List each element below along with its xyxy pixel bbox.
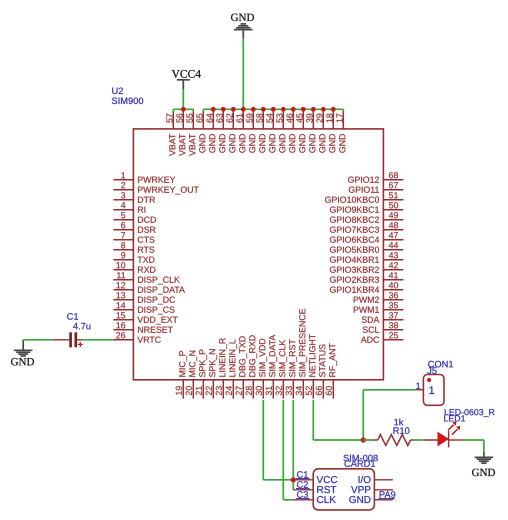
- wire CON1 to junction: [363, 389, 416, 391]
- U2 top pin 45 GND: [296, 109, 305, 152]
- wire pin 52 across to R10 junction: [313, 439, 363, 441]
- junction at top pin 54: [271, 107, 276, 112]
- U2 bottom pin 32 SIM_CLK: [276, 340, 287, 399]
- junction at top pin 58: [261, 107, 266, 112]
- U2 right pin 36 PWM2: [354, 292, 404, 303]
- CARD1 pad label C2: [296, 481, 310, 488]
- CARD1 pin name VPP: [351, 486, 370, 493]
- CON1 value label J5: [427, 367, 436, 373]
- C1 reference label: [67, 313, 78, 320]
- CARD1 pin name RST: [317, 486, 336, 493]
- U2 left pin 15 VDD_EXT: [113, 312, 177, 324]
- junction at top pin 63: [221, 107, 226, 112]
- U2 top pin 39 GND: [306, 109, 315, 152]
- junction at top pin 62: [231, 107, 236, 112]
- U2 left pin 26 VRTC: [113, 332, 160, 343]
- U2 right pin 51 GPIO10KBC0: [325, 192, 403, 203]
- power symbol VCC4: [172, 70, 201, 89]
- U2 right pin 47 GPIO6KBC4: [330, 232, 403, 243]
- U2 top pin 29 GND: [316, 109, 325, 152]
- LED1 package label LED-0603_R: [445, 409, 495, 417]
- wire top GND vertical to pin 61: [242, 39, 244, 110]
- U2 bottom pin 34 SIM_PRESENCE: [296, 309, 307, 399]
- wire down to GND symbol: [483, 440, 485, 452]
- wire pin 30 across to CARD1 VCC: [263, 479, 293, 481]
- U2 top pin 54 GND: [266, 109, 275, 152]
- wire junction drop to CARD1 RST: [292, 480, 294, 490]
- wire pin 52 NETLIGHT down: [312, 400, 314, 440]
- U2 bottom pin 21 SPK_P: [196, 349, 207, 398]
- U2 left pin 8 RTS: [113, 242, 154, 253]
- net label PA9: [378, 491, 395, 498]
- IC U2 SIM900 body: [133, 129, 383, 380]
- U2 right pin 38 SCL: [363, 322, 404, 333]
- ground symbol GND (left, near C1): [11, 340, 34, 366]
- U2 right pin 35 PWM1: [354, 302, 404, 313]
- U2 top pin 59 GND: [246, 109, 255, 152]
- U2 bottom pin 66 STATUS: [316, 344, 326, 398]
- U2 bottom pin 20 MIC_N: [186, 351, 197, 399]
- U2 bottom pin 19 MIC_P: [176, 351, 187, 399]
- U2 right pin 37 SDA: [362, 312, 404, 323]
- C1 value label 4.7u: [73, 323, 90, 329]
- U2 left pin 14 DISP_CS: [113, 302, 174, 314]
- U2 bottom pin 23 LINEIN_R: [216, 338, 227, 398]
- U2 left pin 1 PWRKEY: [113, 172, 175, 182]
- U2 bottom pin 27 DBG_TXD: [236, 336, 247, 398]
- U2 right pin 44 GPIO5KBR0: [330, 242, 403, 253]
- LED LED1 LED-0603_R: [423, 422, 463, 448]
- U2 top pin 46 GND: [286, 109, 295, 152]
- LED1 reference label: [444, 415, 465, 421]
- U2 top pin 63 GND: [216, 109, 225, 152]
- U2 left pin 2 PWRKEY_OUT: [113, 182, 198, 194]
- U2 top pin 57 VBAT: [166, 109, 175, 156]
- U2 bottom pin 28 DBG_RXD: [246, 335, 257, 398]
- U2 bottom pin 31 SIM_DATA: [266, 335, 277, 399]
- junction at top pin 18: [331, 107, 336, 112]
- wire VCC4 vertical to pin 56: [182, 89, 184, 109]
- resistor R10 1k: [374, 435, 414, 446]
- U2 bottom pin 60 RF_ANT: [326, 343, 337, 398]
- CARD1 pin name I/O: [359, 476, 371, 483]
- R10 reference label: [393, 427, 409, 434]
- U2 left pin 6 DSR: [113, 222, 155, 233]
- wire LED1 cathode to GND: [463, 439, 484, 441]
- U2 top pin 17 GND: [336, 109, 345, 152]
- CARD1 pad label C1: [296, 471, 310, 478]
- U2 top pin 55 VBAT: [186, 109, 195, 156]
- connector CON1 J5: [416, 375, 444, 406]
- CON1 pin number 1: [416, 383, 420, 389]
- U2 left pin 7 CTS: [113, 232, 154, 243]
- U2 left pin 4 RI: [113, 202, 145, 212]
- junction at top pin 45: [301, 107, 306, 112]
- wire GND rail across pins 65-17: [203, 108, 343, 110]
- wire left GND to C1: [23, 339, 52, 341]
- junction at top pin 46: [291, 107, 296, 112]
- U2 left pin 5 DCD: [113, 212, 156, 223]
- junction at R10 input: [361, 437, 366, 442]
- SIM card holder CARD1 SIM-008: [293, 469, 393, 510]
- U2 right pin 48 GPIO7KBC3: [330, 222, 403, 233]
- U2 right pin 67 GPIO11: [349, 182, 404, 193]
- R10 value label 1k: [394, 419, 403, 426]
- wire pin 33 SIM_RST down: [292, 400, 294, 480]
- U2 top pin 61 GND: [236, 109, 245, 152]
- wire VCC rail across pins 57-55: [173, 108, 193, 110]
- junction at top pin 53: [281, 107, 286, 112]
- U2 left pin 9 TXD: [113, 252, 154, 263]
- U2 right pin 25 ADC: [361, 332, 404, 343]
- U2 right pin 43 GPIO4KBR1: [330, 252, 403, 263]
- U2 left pin 10 RXD: [113, 262, 155, 273]
- U2 left pin 11 DISP_CLK: [113, 272, 179, 284]
- U2 right pin 50 GPIO9KBC1: [330, 202, 403, 213]
- U2 right pin 68 GPIO12: [348, 172, 403, 183]
- ground symbol GND (bottom right): [472, 452, 495, 476]
- wire junction to R10: [363, 439, 373, 441]
- U2 top pin 18 GND: [326, 109, 335, 152]
- wire C1 to U2 pin 26 VRTC: [83, 339, 114, 341]
- U2 right pin 41 GPIO2KBR3: [330, 272, 403, 283]
- CARD1 pin name CLK: [317, 496, 336, 503]
- junction at top pin 59: [251, 107, 256, 112]
- U2 bottom pin 52 NETLIGHT: [306, 334, 316, 399]
- U2 top pin 62 GND: [226, 109, 235, 152]
- U2 top pin 58 GND: [256, 109, 265, 152]
- wire pin 32 across to CARD1 CLK: [283, 499, 293, 501]
- junction at top pin 29: [321, 107, 326, 112]
- junction at CARD1 VCC: [291, 477, 296, 482]
- junction at top pin 64: [211, 107, 216, 112]
- U2 bottom pin 30 SIM_VDD: [256, 339, 267, 399]
- U2 left pin 16 NRESET: [113, 322, 172, 333]
- junction at top pin 61: [241, 107, 246, 112]
- U2 bottom pin 22 SPK_N: [206, 349, 217, 398]
- U2 reference label: [112, 88, 123, 95]
- CARD1 pad label C3: [296, 491, 310, 498]
- wire pin 32 SIM_CLK down: [282, 400, 284, 500]
- wire junction vertical: [362, 390, 364, 440]
- CARD1 reference label: [344, 460, 375, 467]
- CARD1 package label SIM-008: [343, 455, 377, 462]
- U2 bottom pin 33 SIM_RST: [286, 339, 297, 398]
- U2 top pin 56 VBAT: [176, 109, 185, 156]
- U2 top pin 65 GND: [196, 109, 205, 152]
- U2 top pin 53 GND: [276, 109, 285, 152]
- U2 left pin 12 DISP_DATA: [113, 282, 184, 294]
- ground symbol GND (top): [231, 14, 254, 39]
- U2 left pin 3 DTR: [113, 192, 155, 203]
- wire pin 30 SIM_VDD down: [262, 400, 264, 480]
- U2 bottom pin 24 LINEIN_L: [226, 340, 237, 399]
- SIM900 value label: [112, 98, 143, 105]
- U2 left pin 13 DISP_DC: [113, 292, 175, 304]
- CARD1 pin name GND: [349, 496, 370, 503]
- U2 top pin 64 GND: [206, 109, 215, 152]
- U2 right pin 49 GPIO8KBC2: [330, 212, 403, 223]
- junction at top pin 39: [311, 107, 316, 112]
- capacitor C1 4.7u: [52, 332, 83, 347]
- wire R10 to LED1: [413, 439, 423, 441]
- U2 right pin 42 GPIO3KBR2: [330, 262, 403, 273]
- CARD1 pin name VCC: [317, 476, 338, 483]
- CON1 reference label: [428, 361, 453, 368]
- U2 right pin 40 GPIO1KBR4: [330, 282, 403, 293]
- junction at pin 56: [181, 107, 186, 112]
